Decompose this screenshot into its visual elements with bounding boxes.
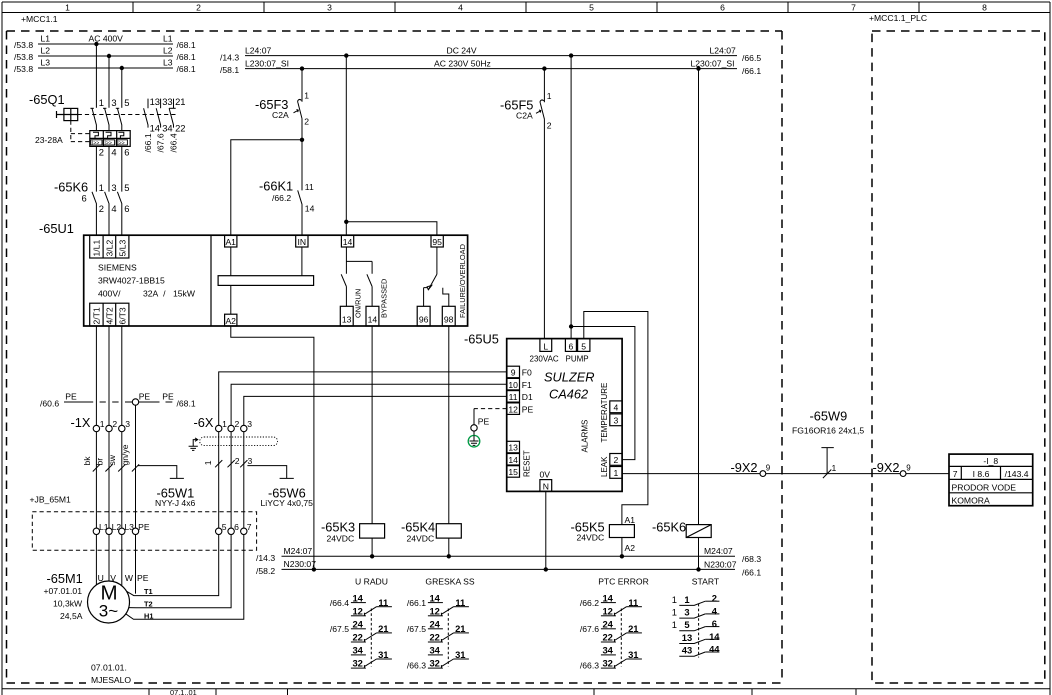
Q1 auxiliary contact 13-14: [144, 99, 148, 128]
node junction leak branch: [569, 324, 573, 328]
svg-text:L24:07: L24:07: [245, 46, 272, 56]
svg-text:N230:07: N230:07: [284, 559, 317, 569]
svg-text:/67.6: /67.6: [580, 624, 599, 634]
terminal -1X:3: [119, 425, 125, 431]
svg-text:1/L1: 1/L1: [92, 240, 102, 257]
svg-text:23-28A: 23-28A: [35, 135, 63, 145]
junction box dashed outline: [32, 512, 256, 550]
svg-text:N: N: [543, 481, 549, 491]
terminal JB L2: [106, 528, 112, 534]
svg-text:1: 1: [65, 2, 70, 12]
svg-text:6: 6: [712, 618, 717, 629]
wire K3 to M24 bus: [371, 538, 373, 556]
terminal JB L3: [119, 528, 125, 534]
U5 pin 3: [610, 414, 622, 426]
wire K5 to M24 bus: [621, 538, 623, 557]
svg-text:LEAK: LEAK: [600, 456, 609, 477]
svg-text:/67.5: /67.5: [330, 624, 349, 634]
svg-text:22: 22: [429, 632, 439, 643]
svg-text:3: 3: [125, 419, 130, 429]
svg-text:/60.6: /60.6: [40, 398, 59, 408]
svg-text:13: 13: [682, 632, 692, 643]
svg-text:AC 400V: AC 400V: [89, 34, 124, 44]
svg-text:PE: PE: [137, 573, 149, 583]
svg-text:96: 96: [419, 315, 429, 325]
svg-text:1: 1: [832, 463, 837, 473]
terminal -1X:2: [106, 425, 112, 431]
svg-text:1: 1: [222, 419, 227, 429]
svg-text:43: 43: [682, 645, 692, 656]
svg-text:/53.8: /53.8: [14, 40, 33, 50]
svg-text:4: 4: [111, 203, 116, 214]
svg-text:/66.4: /66.4: [169, 133, 179, 152]
svg-text:A1: A1: [225, 237, 236, 247]
svg-text:/66.1: /66.1: [143, 133, 153, 152]
pump controller U5 box: [507, 339, 622, 492]
wires 6X down to JB: [219, 432, 244, 528]
svg-text:5: 5: [684, 619, 689, 630]
wire L3 power rail: [38, 67, 173, 69]
U1 wire IN to coil: [301, 247, 303, 276]
svg-text:34: 34: [352, 645, 363, 656]
svg-text:14: 14: [429, 592, 440, 603]
U5 pin 6: [565, 339, 576, 352]
wire U1 pin14 to K3 coil: [371, 326, 373, 524]
PLC input block -I_8: [949, 454, 1033, 506]
node junctions on N230: [312, 567, 316, 571]
svg-text:4: 4: [458, 2, 463, 12]
cable W1 tail: [138, 466, 184, 479]
svg-text:SULZER: SULZER: [544, 370, 595, 385]
wire L2 drop to Q1: [108, 56, 110, 108]
svg-text:22: 22: [352, 632, 362, 643]
contact 66K1 NO: [298, 190, 302, 235]
svg-text:5: 5: [124, 97, 129, 108]
svg-text:6: 6: [124, 203, 129, 214]
Q1 auxiliary contact 33-34: [156, 99, 160, 128]
K6 main contact 1-2: [92, 192, 96, 235]
mechanical link dashed: [620, 609, 622, 667]
svg-text:N230:07: N230:07: [704, 559, 737, 569]
svg-text:/66.4: /66.4: [330, 598, 349, 608]
U1 terminal block 1/L1 3/L2 5/L3: [90, 235, 129, 258]
svg-text:2: 2: [112, 419, 117, 429]
svg-text:/66.3: /66.3: [580, 661, 599, 671]
wire N230:07 bus: [282, 568, 736, 570]
svg-text:/53.8: /53.8: [14, 52, 33, 62]
U5 pin 2: [610, 454, 622, 466]
svg-text:2: 2: [712, 593, 717, 604]
svg-text:MJESALO: MJESALO: [91, 675, 131, 685]
svg-text:13: 13: [150, 96, 160, 107]
Q1 pole contact 5-6: [117, 108, 121, 130]
svg-text:230VAC: 230VAC: [530, 355, 559, 364]
svg-text:24: 24: [429, 619, 440, 630]
svg-text:FG16OR16 24x1,5: FG16OR16 24x1,5: [792, 425, 864, 435]
svg-text:4: 4: [712, 605, 718, 616]
svg-text:/66.5: /66.5: [742, 53, 761, 63]
svg-text:12: 12: [602, 605, 612, 616]
svg-text:T1: T1: [144, 587, 153, 596]
svg-text:9: 9: [511, 368, 516, 378]
U5 pin 11 D1: [507, 391, 520, 403]
U1 pin 96: [417, 306, 430, 326]
node junction L230 branches: [300, 66, 304, 70]
svg-text:3: 3: [248, 456, 253, 466]
svg-text:32A /: 32A /: [143, 289, 166, 299]
Q1 wires to K6: [96, 146, 121, 191]
wire U5 pin9 to 6X:1: [219, 372, 507, 425]
U5 pin 14 RESET: [507, 454, 520, 466]
wire L230 drop to K6 coil: [698, 69, 700, 525]
svg-text:6: 6: [569, 341, 574, 351]
svg-text:I>>: I>>: [117, 140, 125, 146]
svg-text:L3: L3: [163, 58, 173, 68]
wire F3 to A1: [231, 140, 302, 235]
relay K3 coil: [360, 524, 385, 538]
svg-text:2: 2: [235, 456, 240, 466]
svg-text:13: 13: [342, 315, 352, 325]
svg-text:/53.8: /53.8: [14, 64, 33, 74]
Q1 thermal/magnetic trip block: [90, 131, 130, 147]
svg-text:L1: L1: [163, 34, 173, 44]
svg-text:+07.01.01: +07.01.01: [44, 586, 83, 596]
svg-text:C2A: C2A: [272, 110, 289, 120]
svg-text:/66.1: /66.1: [407, 598, 426, 608]
U1 pin A1: [225, 235, 237, 247]
wire L230:07_SI AC 230V rail: [245, 68, 737, 70]
svg-text:1: 1: [100, 419, 105, 429]
wire L24 drop to U5 pump 6: [570, 56, 572, 339]
svg-text:10: 10: [508, 380, 518, 390]
U5 pin 12 PE: [507, 403, 520, 415]
svg-text:400V/: 400V/: [98, 289, 121, 299]
enclosure dashed box +MCC1.1: [7, 31, 783, 683]
svg-text:14: 14: [343, 237, 353, 247]
svg-text:/14.3: /14.3: [256, 553, 275, 563]
wire F3 down to 66K1: [301, 140, 303, 191]
wire K4 to M24 bus: [448, 538, 450, 556]
U1 pin 14: [341, 235, 353, 247]
svg-text:33: 33: [162, 96, 172, 107]
Q1 magnetic trip symbol I>>: [116, 140, 127, 145]
svg-text:U: U: [98, 573, 104, 583]
Q1 auxiliary contact 21-22: [169, 99, 173, 128]
terminal JB 6: [228, 528, 234, 534]
svg-text:I 8.6: I 8.6: [973, 469, 990, 479]
svg-text:14: 14: [602, 592, 613, 603]
svg-text:+MCC1.1_PLC: +MCC1.1_PLC: [869, 13, 927, 23]
U5 pin 4: [610, 401, 622, 413]
svg-text:-65Q1: -65Q1: [29, 92, 65, 107]
svg-text:C2A: C2A: [516, 111, 533, 121]
breaker F3 contact: [298, 69, 302, 140]
U5 pin L: [540, 339, 552, 352]
terminal JB PE: [132, 528, 138, 534]
svg-text:/66.1: /66.1: [742, 66, 761, 76]
U1 pin IN: [296, 235, 308, 247]
shield earth symbol: [193, 438, 198, 446]
svg-text:ALARMS: ALARMS: [581, 420, 590, 453]
U1 internal coil: [218, 276, 314, 286]
svg-text:34: 34: [429, 645, 440, 656]
wire branch to LEAK 2: [571, 327, 635, 460]
svg-text:/66.2: /66.2: [272, 193, 291, 203]
svg-text:5: 5: [589, 2, 594, 12]
svg-text:/68.1: /68.1: [177, 40, 196, 50]
svg-text:/67.6: /67.6: [156, 133, 166, 152]
svg-text:sw: sw: [107, 454, 117, 465]
svg-text:14: 14: [508, 455, 518, 465]
U1 terminal block 2/T1 4/T2 6/T3: [90, 303, 129, 326]
svg-text:2: 2: [614, 455, 619, 465]
svg-text:PE: PE: [65, 391, 77, 401]
svg-text:7: 7: [851, 2, 856, 12]
svg-text:24,5A: 24,5A: [60, 611, 83, 621]
terminal -1X:1: [93, 425, 99, 431]
svg-text:3: 3: [247, 419, 252, 429]
svg-text:14: 14: [305, 203, 315, 213]
svg-text:-65K3: -65K3: [321, 519, 355, 534]
wire branch to pin 95: [346, 222, 437, 235]
relay K4 coil: [436, 524, 461, 538]
Q1 bimetal symbol: [118, 132, 123, 138]
U1 pin 95: [431, 235, 443, 247]
wire L24 drop to U1: [345, 56, 347, 222]
svg-text:L230:07_SI: L230:07_SI: [691, 58, 735, 68]
svg-text:A2: A2: [625, 543, 636, 553]
svg-text:32: 32: [602, 658, 612, 669]
svg-text:5: 5: [581, 341, 586, 351]
svg-text:2: 2: [304, 117, 309, 127]
ground PE earth symbol (green): [473, 431, 475, 435]
svg-text:PE: PE: [522, 404, 534, 414]
svg-text:7: 7: [247, 522, 252, 532]
svg-text:15: 15: [508, 467, 518, 477]
svg-text:+MCC1.1: +MCC1.1: [21, 14, 58, 24]
svg-text:CA462: CA462: [549, 387, 588, 402]
svg-text:24VDC: 24VDC: [577, 533, 605, 543]
breaker F5 contact: [540, 69, 544, 339]
Q1 manual operator: [57, 108, 78, 120]
svg-text:PE: PE: [478, 417, 490, 427]
node L2 junction: [107, 54, 111, 58]
svg-text:-9X2: -9X2: [873, 460, 900, 475]
wire U1 A2 to N230 bus: [231, 326, 314, 569]
cable W6 conductor slashes: [215, 460, 222, 467]
svg-text:-6X: -6X: [194, 415, 214, 430]
svg-text:12: 12: [352, 605, 362, 616]
svg-text:gn/ye: gn/ye: [120, 444, 130, 465]
svg-text:5/L3: 5/L3: [117, 240, 127, 257]
svg-text:L2: L2: [41, 46, 51, 56]
svg-text:3: 3: [111, 97, 116, 108]
svg-text:44: 44: [709, 644, 720, 655]
svg-text:bk: bk: [82, 456, 92, 466]
svg-text:KOMORA: KOMORA: [952, 495, 990, 505]
U1 internal contact BYPASSED 14: [367, 261, 372, 306]
svg-text:-65M1: -65M1: [47, 571, 83, 586]
wire to pin 14: [345, 222, 347, 235]
svg-text:24VDC: 24VDC: [327, 533, 355, 543]
svg-text:13: 13: [508, 443, 518, 453]
motor M1 circle: [88, 581, 130, 623]
svg-text:FAILURE/OVERLOAD: FAILURE/OVERLOAD: [458, 244, 467, 318]
svg-text:L24:07: L24:07: [710, 46, 737, 56]
svg-text:T2: T2: [144, 600, 153, 609]
mechanical link dashed: [447, 609, 449, 667]
svg-text:14: 14: [709, 631, 720, 642]
svg-text:1: 1: [614, 468, 619, 478]
svg-text:10,3kW: 10,3kW: [53, 598, 83, 608]
svg-text:14: 14: [150, 123, 160, 134]
U5 pin N: [540, 480, 552, 492]
node junction L24/F branch: [344, 53, 348, 57]
svg-text:W: W: [125, 573, 134, 583]
svg-text:D1: D1: [522, 392, 533, 402]
svg-text:4: 4: [111, 147, 116, 158]
terminal -6X:1: [216, 425, 222, 431]
terminal -6X:2: [228, 425, 234, 431]
svg-text:1: 1: [672, 619, 677, 630]
svg-text:U RADU: U RADU: [355, 576, 388, 586]
svg-text:22: 22: [602, 632, 612, 643]
svg-text:START: START: [692, 576, 720, 586]
svg-text:L3: L3: [41, 58, 51, 68]
svg-text:3: 3: [327, 2, 332, 12]
svg-text:32: 32: [352, 658, 362, 669]
Q1 bimetal symbol: [106, 132, 111, 138]
svg-text:1: 1: [304, 91, 309, 101]
svg-text:/14.3: /14.3: [220, 52, 239, 62]
svg-text:11: 11: [305, 182, 314, 192]
U5 pin 10 F1: [507, 378, 520, 390]
svg-text:PE: PE: [162, 391, 174, 401]
terminal JB L1: [93, 528, 99, 534]
svg-text:I>>: I>>: [104, 140, 112, 146]
svg-text:PUMP: PUMP: [566, 355, 589, 364]
svg-text:-65U1: -65U1: [39, 221, 74, 236]
svg-text:32: 32: [429, 658, 439, 669]
svg-text:1: 1: [672, 607, 677, 618]
svg-text:34: 34: [162, 123, 172, 134]
svg-text:L: L: [543, 341, 548, 351]
terminal JB 7: [241, 528, 247, 534]
U1 pin 13: [340, 306, 353, 326]
motor thermistor wires T1 T2 H1: [127, 535, 219, 596]
node junction below F3: [300, 138, 304, 142]
svg-text:A2: A2: [225, 316, 236, 326]
contactor K6 coil: [686, 525, 711, 538]
svg-text:V: V: [110, 573, 116, 583]
cable W6 shield loop: [200, 437, 278, 446]
svg-text:14: 14: [352, 592, 363, 603]
svg-text:M24:07: M24:07: [284, 546, 313, 556]
svg-text:4/T2: 4/T2: [104, 307, 114, 324]
svg-text:PRODOR VODE: PRODOR VODE: [952, 482, 1017, 492]
Q1 magnetic trip symbol I>>: [103, 140, 114, 145]
svg-text:6: 6: [124, 147, 129, 158]
svg-text:PE: PE: [139, 391, 151, 401]
mechanical link dashed: [370, 609, 372, 667]
svg-text:NYY-J 4x6: NYY-J 4x6: [155, 498, 196, 508]
svg-text:/67.5: /67.5: [407, 624, 426, 634]
svg-text:-66K1: -66K1: [259, 179, 293, 194]
relay K5 coil: [609, 525, 634, 538]
cable W9 shield symbol: [821, 448, 833, 474]
svg-text:12: 12: [429, 605, 439, 616]
K6 main contact 5-6: [117, 192, 121, 235]
svg-text:8: 8: [982, 2, 987, 12]
cable W1 conductor slashes: [93, 464, 100, 471]
svg-text:L2: L2: [163, 46, 173, 56]
svg-text:L230:07_SI: L230:07_SI: [245, 58, 289, 68]
svg-text:I>>: I>>: [92, 140, 100, 146]
svg-text:F0: F0: [522, 368, 532, 378]
svg-text:1: 1: [99, 97, 104, 108]
U1 internal changeover FAILURE 95-96-98: [424, 247, 449, 306]
wire U5 N to N230 bus: [545, 491, 547, 569]
svg-text:M24:07: M24:07: [704, 546, 733, 556]
U5 pin 9 F0: [507, 366, 520, 378]
svg-text:/68.1: /68.1: [177, 52, 196, 62]
svg-text:-65K6: -65K6: [652, 519, 686, 534]
cable W6 tail: [247, 466, 293, 479]
U5 pin 1: [610, 467, 622, 479]
svg-text:9: 9: [906, 463, 911, 472]
svg-text:-65W9: -65W9: [810, 408, 848, 423]
wire U5 pin12 PE dashed: [474, 408, 507, 410]
wire U5 LEAK1 to PLC input: [622, 473, 949, 475]
svg-text:-1X: -1X: [71, 415, 91, 430]
svg-text:+JB_65M1: +JB_65M1: [30, 495, 72, 505]
svg-text:07.1..01: 07.1..01: [170, 688, 197, 695]
wire L1 drop to Q1: [95, 44, 97, 108]
svg-text:21: 21: [175, 96, 185, 107]
node junction split 14/95: [344, 220, 348, 224]
svg-text:95: 95: [432, 237, 442, 247]
U5 pin 5: [578, 339, 590, 352]
svg-text:/66.3: /66.3: [407, 661, 426, 671]
svg-text:2: 2: [235, 419, 240, 429]
svg-text:GRESKA SS: GRESKA SS: [425, 576, 474, 586]
U5 pin 13 RESET: [507, 441, 520, 453]
svg-text:24: 24: [352, 619, 363, 630]
svg-text:ON/RUN: ON/RUN: [354, 289, 363, 318]
svg-text:LiYCY 4x0,75: LiYCY 4x0,75: [261, 498, 314, 508]
svg-text:IN: IN: [298, 237, 307, 247]
wire U5 pin11 to 6X:3: [244, 396, 507, 425]
svg-text:11: 11: [509, 392, 518, 402]
svg-text:24: 24: [602, 619, 613, 630]
svg-text:1: 1: [684, 594, 689, 605]
svg-text:98: 98: [444, 315, 454, 325]
svg-text:PTC ERROR: PTC ERROR: [598, 576, 649, 586]
svg-text:3: 3: [614, 416, 619, 426]
node L1 junction: [94, 42, 98, 46]
svg-text:BYPASSED: BYPASSED: [379, 279, 388, 318]
svg-text:-65U5: -65U5: [464, 332, 499, 347]
terminal JB 5: [216, 528, 222, 534]
svg-text:07.01.01.: 07.01.01.: [91, 662, 127, 672]
svg-text:1: 1: [203, 460, 213, 465]
mechanical link dashed: [698, 604, 700, 658]
svg-text:F1: F1: [522, 380, 532, 390]
enclosure dashed box +MCC1.1_PLC: [872, 31, 1045, 683]
wire PE conductor down: [135, 405, 137, 593]
wire K6 to N230 bus: [698, 538, 700, 570]
svg-text:/66.1: /66.1: [742, 567, 761, 577]
